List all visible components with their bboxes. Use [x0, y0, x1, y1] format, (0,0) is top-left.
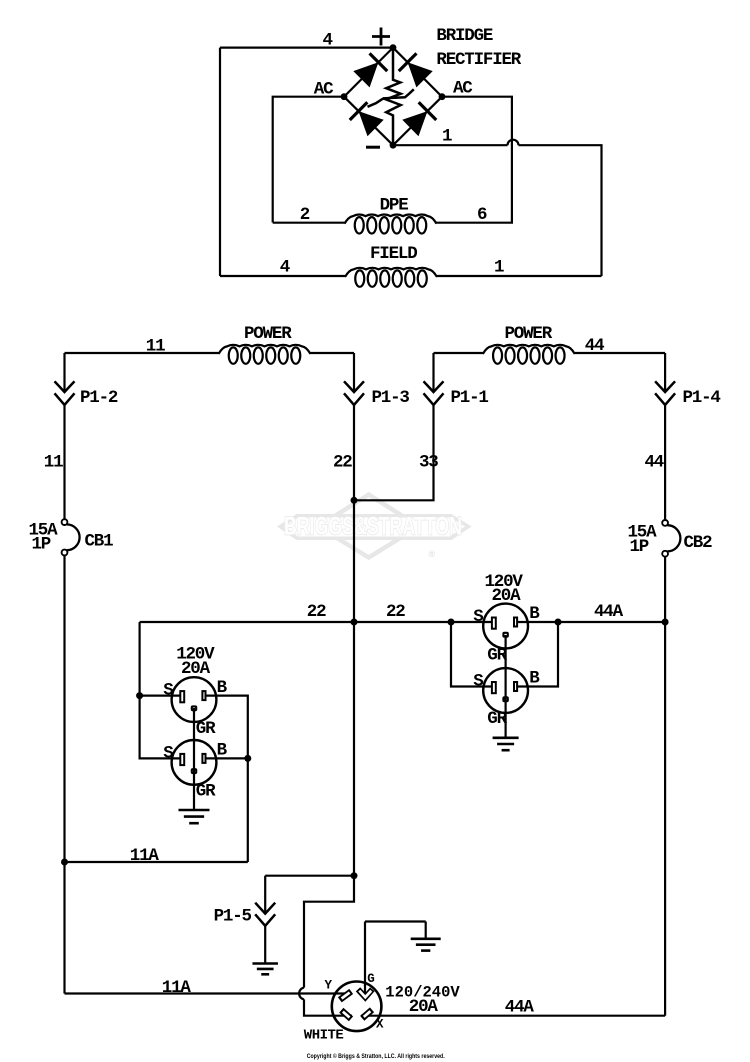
- connector P1-1 chevrons: [424, 381, 444, 392]
- node bottom-left junction: [61, 859, 68, 866]
- svg-text:11A: 11A: [130, 846, 160, 866]
- wire 22 bus left part: [140, 621, 492, 623]
- wire B2 link: [207, 757, 248, 759]
- svg-text:S: S: [163, 681, 173, 701]
- svg-text:4: 4: [280, 258, 290, 278]
- ground (right group): [493, 736, 519, 739]
- inductor DPE: [355, 217, 364, 233]
- ground (left group): [179, 809, 210, 812]
- wire POWER2 right: [575, 352, 665, 354]
- Briggs &amp; Stratton watermark logo: [318, 495, 419, 558]
- svg-text:P1-1: P1-1: [451, 388, 489, 408]
- minus sign: [366, 146, 380, 149]
- connector P1-4 chevrons: [655, 381, 675, 392]
- svg-text:2: 2: [300, 205, 310, 225]
- svg-text:BRIGGS&STRATTON: BRIGGS&STRATTON: [284, 512, 462, 540]
- svg-text:X: X: [376, 1018, 384, 1032]
- node AC left: [341, 93, 348, 100]
- wire P1-3 rail: [353, 405, 355, 876]
- wire B1 to right edge: [207, 696, 248, 862]
- wire GR chain left: [193, 708, 195, 810]
- wire P1-2 stem: [63, 353, 65, 392]
- node S feed junction: [136, 692, 143, 699]
- wire AC right to DPE: [437, 97, 512, 223]
- node 22 bus / right rail: [662, 619, 669, 626]
- wire left group left edge: [140, 622, 181, 758]
- prong W (R5): [341, 1010, 351, 1019]
- wire - output with hop: [393, 144, 508, 146]
- wire S4 drop: [451, 622, 492, 687]
- node AC right: [439, 93, 446, 100]
- svg-text:22: 22: [386, 602, 405, 622]
- svg-text:4: 4: [323, 30, 333, 50]
- node 22 bus / P1-3: [351, 619, 358, 626]
- wire POWER1 right: [311, 352, 355, 354]
- bridge rectifier diamond edges: [344, 48, 442, 146]
- wire P1-5 to ground: [264, 926, 266, 963]
- svg-text:S: S: [473, 672, 483, 692]
- svg-text:RECTIFIER: RECTIFIER: [436, 50, 521, 70]
- svg-text:GR: GR: [196, 782, 216, 802]
- receptacle R3 120V 20A (upper right): [483, 604, 528, 649]
- receptacle R5 120/240V 20A twist-lock: [332, 982, 382, 1032]
- wire neutral drop with hop: [304, 876, 354, 988]
- wire P1-3 stem: [353, 353, 355, 392]
- wire left rail below CB1: [63, 556, 65, 994]
- wire X feed: [361, 1015, 665, 1017]
- diode D1 (AC left to +): [353, 62, 378, 87]
- node B2 junction: [244, 755, 251, 762]
- wire P1-1 to P1-3 jumper: [354, 405, 434, 500]
- svg-text:®: ®: [429, 549, 436, 559]
- receptacle R1 120V 20A (upper left): [172, 677, 217, 722]
- svg-text:POWER: POWER: [505, 324, 553, 344]
- wire FIELD left: [220, 275, 345, 277]
- svg-text:S: S: [163, 743, 173, 763]
- wire B4 drop: [517, 622, 558, 687]
- svg-text:1: 1: [494, 258, 504, 278]
- svg-text:20A: 20A: [409, 997, 439, 1017]
- inductor POWER2: [493, 347, 502, 363]
- svg-text:44: 44: [645, 453, 664, 473]
- wire P1-5 horizontal: [265, 875, 354, 877]
- varistor zigzag inside bridge: [386, 48, 401, 146]
- svg-text:CB1: CB1: [85, 532, 114, 552]
- node + (top): [390, 44, 397, 51]
- wire left group bottom: [65, 861, 248, 863]
- wire + output (node 4) top: [220, 46, 393, 48]
- svg-text:11A: 11A: [162, 978, 192, 998]
- svg-text:11: 11: [44, 453, 63, 473]
- diode D3 (- to AC left): [359, 111, 384, 136]
- svg-text:1P: 1P: [32, 535, 51, 555]
- svg-text:P1-3: P1-3: [372, 388, 410, 408]
- prong X (R5): [362, 1010, 372, 1019]
- node P1-5 junction: [351, 872, 358, 879]
- wire AC left to DPE: [273, 97, 344, 223]
- connector P1-3 chevrons: [344, 381, 364, 392]
- svg-text:22: 22: [307, 602, 326, 622]
- svg-text:33: 33: [419, 453, 438, 473]
- svg-text:G: G: [367, 972, 375, 986]
- svg-text:WHITE: WHITE: [304, 1028, 344, 1044]
- svg-text:22: 22: [333, 453, 352, 473]
- svg-text:S: S: [473, 607, 483, 627]
- connector P1-5 chevrons: [255, 903, 275, 914]
- svg-text:6: 6: [477, 205, 487, 225]
- varistor strike line: [368, 89, 414, 107]
- circuit breaker CB2: [662, 520, 668, 526]
- svg-text:GR: GR: [196, 719, 216, 739]
- wire S1 feed: [140, 694, 181, 696]
- wire P1-1 stem: [432, 353, 434, 392]
- svg-text:1P: 1P: [630, 537, 649, 557]
- wire 11A bottom: [65, 992, 349, 994]
- prong G (R5): [358, 989, 372, 997]
- svg-text:FIELD: FIELD: [370, 244, 417, 264]
- wire P1-4 stem: [664, 353, 666, 392]
- wire POWER2 left: [434, 352, 483, 354]
- ground (P1-5): [252, 962, 278, 965]
- wire right rail below CB2: [664, 557, 666, 1016]
- svg-text:BRIDGE: BRIDGE: [436, 26, 493, 46]
- svg-text:44: 44: [585, 336, 604, 356]
- svg-text:Y: Y: [325, 979, 333, 993]
- wire right rail above CB2: [664, 405, 666, 520]
- svg-text:Copyright © Briggs & Stratton,: Copyright © Briggs & Stratton, LLC. All …: [307, 1052, 445, 1060]
- inductor FIELD: [355, 270, 364, 286]
- connector P1-2 chevrons: [55, 381, 75, 392]
- wire left rail above CB1: [63, 405, 65, 520]
- svg-text:P1-5: P1-5: [214, 907, 252, 927]
- svg-text:CB2: CB2: [684, 533, 713, 553]
- node - (bottom): [390, 142, 397, 149]
- circuit breaker CB1: [62, 519, 68, 525]
- wire POWER1 left: [65, 352, 219, 354]
- svg-text:44A: 44A: [594, 602, 624, 622]
- wire left vertical 4 to FIELD: [219, 48, 221, 276]
- ground (G terminal): [411, 937, 441, 940]
- wire G prong stem tip: [364, 985, 366, 994]
- svg-text:DPE: DPE: [380, 196, 409, 216]
- prong Y (R5): [340, 991, 351, 999]
- svg-text:1: 1: [442, 127, 452, 147]
- node S4 junction: [448, 619, 455, 626]
- wire FIELD right: [437, 275, 602, 277]
- svg-text:P1-2: P1-2: [80, 388, 118, 408]
- plus sign: [372, 35, 390, 38]
- wire P1-5 stem: [264, 876, 266, 914]
- svg-text:POWER: POWER: [244, 324, 292, 344]
- svg-text:AC: AC: [453, 79, 473, 99]
- node junction 33/22: [351, 497, 358, 504]
- svg-text:P1-4: P1-4: [683, 388, 721, 408]
- diode D2 (AC right to +): [408, 62, 433, 87]
- receptacle R2 120V 20A (lower left): [172, 740, 217, 785]
- wire GR chain right: [505, 635, 507, 737]
- wire 22 bus right part: [517, 621, 665, 623]
- diode D4 (- to AC right): [402, 111, 427, 136]
- receptacle R4 120V 20A (lower right): [483, 668, 528, 713]
- svg-text:44A: 44A: [505, 998, 535, 1018]
- svg-text:11: 11: [146, 337, 165, 357]
- inductor POWER1: [229, 347, 238, 363]
- wire G chain: [364, 922, 366, 987]
- node B4 junction: [555, 619, 562, 626]
- wire DPE left: [273, 222, 345, 224]
